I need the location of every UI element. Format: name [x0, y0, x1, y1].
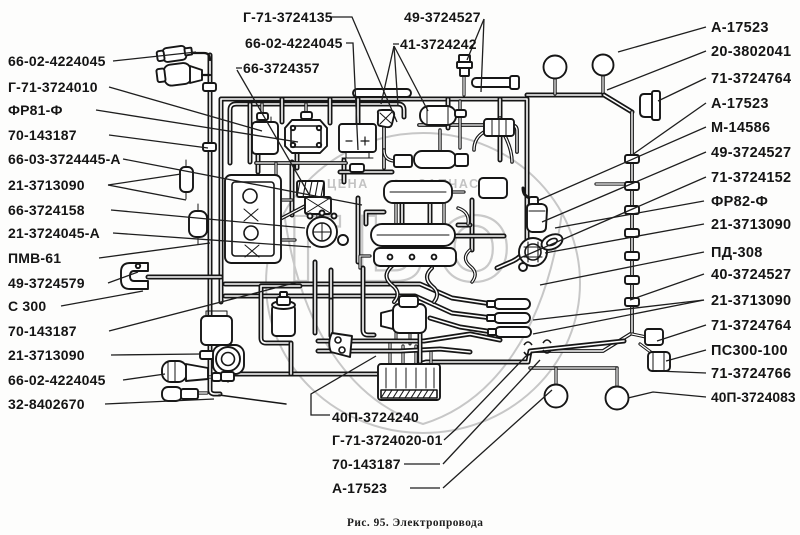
wire bottom diag thin	[219, 395, 286, 404]
leader 71-3724764 R13	[657, 325, 706, 341]
spark plug connector 3	[495, 327, 531, 337]
wire mid bar 2	[318, 349, 470, 352]
bead chain 1	[625, 155, 639, 163]
hatch box above distributor	[297, 181, 324, 197]
wire jar link	[289, 343, 294, 374]
wire drop x500	[498, 99, 503, 160]
leader PD-308 R10	[540, 252, 704, 285]
leader 70-143187 L12	[109, 282, 298, 331]
wire fin feed 4	[429, 352, 432, 364]
svg-text:66-03-3724445-А: 66-03-3724445-А	[8, 151, 121, 167]
svg-text:Г-71-3724010: Г-71-3724010	[8, 79, 98, 95]
svg-text:40-3724527: 40-3724527	[711, 267, 791, 283]
bottom lamp A (circle)	[545, 385, 568, 408]
generator body (grid circle)	[519, 238, 547, 266]
voltage regulator box B	[285, 120, 327, 153]
svg-text:Г-71-3724135: Г-71-3724135	[243, 9, 333, 25]
svg-text:40П-3724083: 40П-3724083	[711, 390, 796, 405]
leader 71-3724766 R15	[657, 371, 706, 373]
leader 40-3724527 R11	[630, 274, 704, 300]
wire mid harness 1	[225, 284, 492, 304]
svg-text:ПС300-100: ПС300-100	[711, 343, 788, 359]
svg-text:ФР81-Ф: ФР81-Ф	[8, 102, 63, 118]
leader 49-3724527 R6	[542, 152, 706, 222]
svg-text:С 300: С 300	[8, 298, 46, 314]
leader 40P-3724240 B1	[311, 356, 376, 415]
wire y125 run	[419, 125, 517, 152]
horn M-14586	[523, 188, 535, 200]
wire bottom harness main	[219, 341, 624, 374]
leader 71-3724764 R3	[658, 78, 706, 101]
wire engine snake 3	[470, 200, 475, 250]
watermark shield	[284, 212, 562, 424]
bead on wire x358	[350, 164, 364, 172]
svg-text:70-143187: 70-143187	[332, 456, 401, 472]
svg-text:21-3713090: 21-3713090	[8, 347, 85, 363]
ignition coil small box	[394, 155, 412, 167]
wire drop x358	[356, 99, 361, 150]
bead chain 6	[625, 276, 639, 284]
leader G-71-3724020-01 B2	[444, 355, 527, 440]
fuse box with X	[305, 197, 331, 214]
svg-text:49-3724527: 49-3724527	[404, 9, 481, 25]
wire bottom lamp bar	[530, 366, 617, 369]
svg-text:21-3713090: 21-3713090	[711, 293, 791, 309]
svg-text:66-3724158: 66-3724158	[8, 202, 85, 218]
leader A-17523 B4	[443, 390, 552, 488]
spark plug connector 1	[494, 299, 530, 309]
svg-text:Рис. 95. Электропровода: Рис. 95. Электропровода	[347, 517, 483, 529]
top marker lamp A (circle)	[544, 56, 567, 79]
bead on left vertical mid	[203, 143, 216, 151]
sensor 49-3724527 top	[459, 55, 470, 62]
wire horn M link	[596, 182, 630, 185]
svg-text:ПМВ-61: ПМВ-61	[8, 250, 61, 266]
ignition coil cylinder	[414, 151, 456, 168]
leader 21-3713090 R9	[545, 224, 704, 253]
wire fin feed 3	[414, 346, 417, 364]
wire batt right 2	[281, 238, 295, 241]
wire engine snake 7	[400, 203, 405, 224]
leader 21-3713090 L6b	[108, 185, 186, 200]
svg-text:66-3724357: 66-3724357	[243, 60, 320, 76]
wire cap up	[474, 118, 500, 150]
svg-text:ФР82-Ф: ФР82-Ф	[711, 194, 768, 210]
striped relay right	[484, 119, 514, 136]
horn component top center	[378, 110, 394, 127]
wire ignition bundle	[267, 206, 305, 226]
valve cover	[384, 181, 452, 203]
bead chain 4	[625, 229, 639, 237]
svg-text:ЦЕНА: ЦЕНА	[327, 177, 369, 191]
bead chain 7	[625, 298, 639, 306]
wire left outer vertical	[210, 55, 220, 394]
leader 70-143187 L4	[109, 135, 208, 148]
svg-text:Г-71-3724020-01: Г-71-3724020-01	[332, 432, 443, 448]
leader 49-3724527 T4a	[467, 19, 484, 60]
bead chain 3	[625, 206, 639, 214]
svg-text:49-3724527: 49-3724527	[711, 145, 791, 161]
svg-text:41-3724242: 41-3724242	[400, 36, 477, 52]
wire drop x306	[304, 104, 307, 118]
flasher canister	[201, 316, 232, 345]
svg-text:70-143187: 70-143187	[8, 323, 77, 339]
starter motor	[393, 304, 426, 333]
bottom lamp B (circle)	[606, 387, 629, 410]
leader 41-3724242 T5a	[381, 46, 394, 104]
svg-text:21-3713090: 21-3713090	[711, 217, 791, 233]
connector cylinder 66-3724158	[189, 211, 207, 237]
leader 66-02-4224045 L14	[123, 374, 165, 380]
bead drop x460	[455, 110, 466, 117]
wire harness top loop	[221, 99, 527, 302]
bead on left vertical low	[200, 351, 214, 359]
wire mid harness 2	[225, 296, 492, 318]
leader 66-02-4224045 T2	[346, 43, 358, 150]
wire inner loop	[230, 104, 404, 163]
wire box B tail	[295, 153, 300, 168]
wire fin feed 1	[388, 342, 391, 364]
wire shelf under boxes	[256, 161, 346, 165]
leader FR81-F L3	[96, 110, 298, 142]
wire drop x330	[328, 99, 333, 123]
relay box C	[339, 124, 376, 152]
svg-text:66-02-4224045: 66-02-4224045	[8, 372, 106, 388]
svg-text:40П-3724240: 40П-3724240	[332, 409, 419, 425]
wire lamp stem right top	[601, 76, 604, 94]
wire engine c1	[458, 208, 468, 224]
leader 66-3724357 T3	[237, 70, 310, 196]
leader S300 L11	[61, 291, 143, 306]
wire corner curve right	[505, 136, 512, 162]
wire lamp feed left	[197, 375, 214, 378]
battery block	[225, 175, 281, 263]
bead drop x262	[257, 113, 268, 120]
wire engine stub 2	[360, 256, 370, 268]
horn cylinder right	[420, 106, 456, 125]
svg-text:66-02-4224045: 66-02-4224045	[245, 35, 343, 51]
headlamp housing	[213, 345, 244, 374]
relay 71-3724764 bottom right	[645, 329, 663, 345]
leader 21-3713090 R12b	[533, 300, 704, 334]
sleeve bead	[212, 373, 221, 381]
wire engine stub 1	[452, 190, 464, 193]
leader 21-3713090 R12a	[533, 300, 704, 320]
bracket plate with holes	[329, 333, 352, 357]
svg-text:71-3724766: 71-3724766	[711, 366, 791, 382]
wire mid bar 1	[318, 334, 500, 341]
wire ps300 link	[640, 344, 652, 353]
washer jar	[272, 305, 295, 336]
svg-text:ПД-308: ПД-308	[711, 245, 763, 261]
wire fusebox down	[316, 214, 319, 224]
wire box A tail	[256, 154, 261, 172]
leader M-14586 R5	[537, 127, 706, 201]
leader 71-3724152 R7	[520, 177, 706, 258]
bead on left vertical top	[203, 83, 216, 91]
wire stem lamp B	[615, 368, 618, 387]
wire center drop	[363, 268, 374, 335]
clip junction 1 bottom harness	[524, 342, 532, 355]
wire lamp stem left top	[553, 79, 556, 94]
wire drop x448	[446, 99, 451, 128]
svg-text:А-17523: А-17523	[332, 480, 387, 496]
engine block strip	[374, 248, 456, 266]
wire engine snake 10	[455, 234, 504, 239]
clip junction 2 bottom harness	[543, 340, 551, 353]
svg-text:71-3724764: 71-3724764	[711, 318, 791, 334]
wire right bead chain	[530, 112, 632, 351]
leader 66-03-3724445-A L5	[123, 159, 362, 205]
leader 41-3724242 T5b	[394, 46, 398, 106]
leader 66-3724158 L7	[111, 210, 305, 228]
wire drop x282	[280, 99, 285, 122]
spark plug connector 2	[494, 313, 530, 323]
wire engine snake 1	[290, 162, 295, 215]
wire left bracket link	[148, 275, 221, 280]
leader 40P-3724083 R16	[628, 392, 706, 398]
wire drop x262	[260, 104, 263, 120]
wire mid harness 3	[430, 318, 493, 332]
wire engine snake 5	[356, 198, 361, 262]
relay PS300-100	[648, 352, 670, 371]
svg-text:32-8402670: 32-8402670	[8, 396, 85, 412]
leader 49-3724579 L10	[108, 272, 138, 283]
wire vert x384	[382, 117, 386, 168]
leader G-71-3724135 T1	[329, 17, 397, 122]
svg-text:А-17523: А-17523	[711, 96, 769, 112]
svg-text:49-3724579: 49-3724579	[8, 275, 85, 291]
svg-text:М-14586: М-14586	[711, 120, 770, 136]
wire engine snake 2	[342, 160, 347, 182]
heater finned box 40P-3724240	[378, 364, 440, 400]
generator foot circle	[519, 263, 527, 271]
svg-text:21-3713090: 21-3713090	[8, 177, 85, 193]
left bracket 49-3724579	[121, 263, 148, 289]
big cigar plug left	[162, 361, 187, 382]
wire coil drop	[438, 130, 441, 152]
wire inner vertical 1	[248, 104, 253, 162]
connector plug top-left 2	[156, 62, 192, 87]
watermark circle	[266, 133, 580, 433]
wire fin feed 6	[409, 322, 412, 344]
rod bracket 41-3724242	[472, 78, 514, 87]
wire lamp to harness	[227, 374, 230, 381]
wire fin feed 5	[395, 330, 398, 342]
svg-text:71-3724152: 71-3724152	[711, 170, 791, 186]
bumper bar above harness	[353, 89, 411, 97]
wire engine s4	[427, 268, 437, 302]
wire jar loop	[261, 286, 300, 343]
wire low plug link	[197, 391, 207, 394]
wire engine c2	[466, 250, 476, 282]
wire diag to bead chain	[604, 95, 632, 112]
bead chain 2	[625, 182, 639, 190]
dash marks bottom labels	[404, 464, 440, 488]
wire engine snake 4	[458, 223, 470, 228]
wire drop x460	[458, 101, 461, 148]
leader FR82-F R8	[555, 201, 704, 228]
bead drop x306	[301, 112, 312, 119]
svg-text:20-3802041: 20-3802041	[711, 44, 791, 60]
leader 70-143187 B3	[443, 360, 540, 464]
connector plug top-left 1	[156, 45, 193, 64]
headlamp plug	[221, 372, 234, 381]
wire engine snake 9	[366, 212, 384, 224]
leader 66-02-4224045 L1	[113, 52, 196, 61]
wire engine snake 8	[428, 203, 433, 224]
bead chain 5	[625, 252, 639, 260]
leader 32-8402670 L15	[105, 399, 214, 404]
wire right comp link	[632, 334, 646, 337]
wire top right run	[527, 93, 604, 98]
distributor	[307, 217, 337, 247]
wire shelf leg	[274, 163, 277, 175]
relay box A 66-3724357	[252, 122, 278, 154]
air filter	[371, 224, 455, 246]
wire engine s3	[387, 266, 398, 302]
svg-text:70-143187: 70-143187	[8, 127, 77, 143]
wire starter drop	[418, 334, 423, 362]
wire stem lamp A	[554, 368, 557, 385]
svg-text:66-02-4224045: 66-02-4224045	[8, 53, 106, 69]
wire engine snake 6	[340, 170, 392, 175]
svg-text:21-3724045-А: 21-3724045-А	[8, 225, 100, 241]
side repeater component right top	[640, 94, 653, 117]
wire battery drop 2	[329, 270, 334, 300]
wire s-curve coil	[384, 150, 394, 161]
leader 21-3713090 L6a	[108, 174, 181, 185]
wire sensor stem	[462, 75, 465, 95]
starter relay right	[479, 178, 507, 198]
leader 49-3724527 T4b	[481, 19, 484, 92]
low plug left	[162, 387, 182, 401]
leader 21-3724045-A L8	[113, 233, 311, 247]
leader PMV-61 L9	[99, 243, 210, 258]
wire battery drop 1	[313, 262, 318, 333]
wire engine conn b	[442, 203, 445, 224]
leader G-71-3724010 L2	[109, 87, 262, 131]
wire batt right 1	[281, 198, 292, 201]
leader PS300-100 R14	[666, 350, 706, 361]
leader 21-3713090 L13	[111, 354, 201, 355]
svg-text:А-17523: А-17523	[711, 20, 769, 36]
generator ring handle	[539, 231, 565, 253]
leader A-17523 R4	[632, 103, 706, 155]
leader 41-3724242 T5c	[394, 46, 428, 111]
wire fin feed 2	[401, 346, 404, 364]
leader A-17523 R1	[618, 27, 706, 52]
wire engine conn a	[394, 203, 397, 224]
top marker lamp B (circle)	[593, 55, 614, 76]
headlamp lens	[216, 347, 240, 371]
connector cylinder 21-3713090 left1	[180, 167, 193, 192]
dash marks top labels	[236, 44, 399, 68]
svg-text:71-3724764: 71-3724764	[711, 71, 791, 87]
wire battery drop 1b	[329, 300, 334, 336]
leader 20-3802041 R2	[607, 51, 706, 90]
